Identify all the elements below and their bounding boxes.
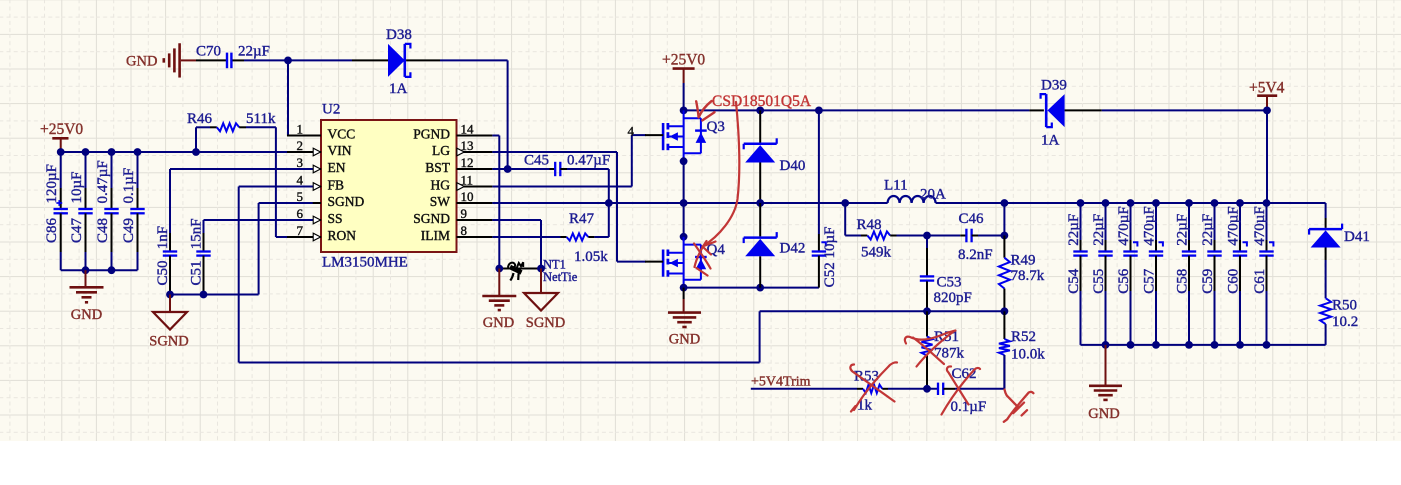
ground SGND (net-tie) — [540, 269, 542, 294]
wire R52 bottom corner — [1003, 355, 1005, 389]
transistor Q3 CSD18501Q5A — [662, 123, 665, 150]
capacitor C49 — [137, 152, 139, 188]
capacitor C58 — [1188, 203, 1190, 240]
svg-text:C46: C46 — [959, 211, 985, 227]
capacitor C55 — [1105, 203, 1107, 240]
svg-text:C47: C47 — [69, 217, 85, 243]
capacitor C57 — [1155, 203, 1157, 240]
svg-text:D41: D41 — [1344, 229, 1370, 245]
capacitor C86 — [60, 152, 62, 188]
markup cross over R51 — [905, 331, 956, 367]
node rail-C59 — [1211, 199, 1219, 207]
node bus-C86 — [57, 148, 65, 156]
pin 11 HG — [457, 186, 493, 188]
node rail-C55 — [1102, 199, 1110, 207]
svg-text:BST: BST — [425, 160, 451, 175]
svg-text:LG: LG — [432, 143, 450, 158]
svg-text:1.05k: 1.05k — [574, 249, 608, 265]
wire LG to Q4 gate riser — [492, 151, 617, 153]
svg-text:GND: GND — [71, 307, 102, 323]
svg-text:C52: C52 — [822, 262, 838, 287]
node BST junction — [504, 165, 512, 173]
node Q4 source — [680, 284, 688, 292]
svg-text:FB: FB — [328, 177, 345, 192]
svg-text:1A: 1A — [1041, 133, 1060, 149]
svg-text:+5V4: +5V4 — [1249, 79, 1285, 96]
svg-text:C58: C58 — [1174, 269, 1190, 294]
svg-text:VIN: VIN — [328, 143, 352, 158]
resistor R48 — [844, 203, 846, 236]
resistor R49 — [1003, 203, 1005, 236]
wire SW long row — [492, 202, 887, 204]
node rail-C61 — [1263, 199, 1271, 207]
wire +25V rail — [684, 109, 1030, 111]
svg-text:1A: 1A — [389, 81, 408, 97]
node rail-C58 — [1185, 199, 1193, 207]
node nettie-right — [537, 265, 545, 273]
svg-text:U2: U2 — [322, 102, 340, 118]
diode D39 — [1029, 109, 1044, 111]
node bus-C48 — [108, 148, 116, 156]
svg-text:470µF: 470µF — [1141, 206, 1157, 246]
svg-text:+25V0: +25V0 — [662, 52, 705, 69]
capacitor C48 — [111, 152, 113, 188]
node botbus-C48 — [108, 266, 116, 274]
node VCC junction — [284, 57, 292, 65]
wire Q4 gate — [617, 261, 646, 263]
svg-text:9: 9 — [461, 206, 468, 221]
svg-text:0.47µF: 0.47µF — [567, 152, 610, 168]
diode D38 — [288, 59, 352, 61]
resistor R53 — [857, 388, 863, 390]
wire FB riser — [239, 186, 313, 188]
svg-text:CSD18501Q5A: CSD18501Q5A — [712, 93, 812, 110]
svg-text:2: 2 — [297, 138, 304, 153]
svg-text:ILIM: ILIM — [421, 228, 450, 243]
svg-text:12: 12 — [461, 155, 474, 170]
svg-text:120µF: 120µF — [44, 164, 60, 204]
svg-text:C55: C55 — [1091, 269, 1107, 294]
svg-text:HG: HG — [431, 177, 451, 192]
svg-text:EN: EN — [328, 160, 346, 175]
wire D39 anode to +5V4 — [1102, 109, 1267, 111]
svg-text:549k: 549k — [861, 245, 892, 261]
inductor L11 — [888, 196, 936, 203]
pin 9 SGND — [457, 219, 493, 221]
svg-text:C51: C51 — [188, 260, 204, 285]
pin 13 LG — [457, 151, 493, 153]
node nettie-left — [495, 265, 503, 273]
capacitor C51 — [203, 233, 205, 252]
node botrow-C57 — [1152, 341, 1160, 349]
svg-text:3: 3 — [297, 155, 304, 170]
svg-text:0.1µF: 0.1µF — [121, 168, 137, 204]
svg-text:GND: GND — [483, 315, 514, 331]
capacitor C52 — [818, 110, 820, 234]
pin 2 VIN — [287, 151, 321, 153]
wire SGND pin9 to net-tie — [492, 219, 541, 221]
svg-text:5: 5 — [297, 189, 304, 204]
capacitor C54 — [1080, 203, 1082, 240]
capacitor C45 — [492, 168, 549, 170]
capacitor C60 — [1239, 203, 1241, 240]
svg-text:C62: C62 — [952, 366, 977, 382]
wire C70 to junction — [244, 59, 288, 61]
svg-text:10µF: 10µF — [69, 172, 85, 204]
svg-text:D38: D38 — [386, 27, 412, 43]
svg-text:470µF: 470µF — [1116, 206, 1132, 246]
svg-text:10µF: 10µF — [822, 227, 838, 259]
pin 4 FB — [287, 186, 321, 188]
pin 7 RON — [287, 236, 321, 238]
svg-text:0.1µF: 0.1µF — [951, 399, 987, 415]
svg-text:GND: GND — [669, 332, 700, 348]
svg-text:D39: D39 — [1041, 78, 1067, 94]
svg-text:10: 10 — [461, 189, 474, 204]
svg-text:D40: D40 — [780, 158, 806, 174]
wire L11 to output rail — [936, 202, 1326, 204]
capacitor C70 — [196, 59, 226, 61]
node SW-D42 — [756, 199, 764, 207]
svg-text:R46: R46 — [187, 111, 213, 127]
svg-text:R49: R49 — [1011, 252, 1036, 268]
svg-text:C49: C49 — [121, 218, 137, 243]
svg-text:22µF: 22µF — [1066, 214, 1082, 246]
svg-text:C59: C59 — [1200, 269, 1216, 294]
svg-text:511k: 511k — [246, 111, 276, 127]
svg-text:GND: GND — [1088, 406, 1119, 422]
svg-text:SGND: SGND — [413, 211, 450, 226]
wire SGND pin5 run — [259, 202, 313, 204]
pin 10 SW — [457, 202, 493, 204]
svg-text:NetTie: NetTie — [543, 270, 578, 284]
svg-text:SW: SW — [430, 194, 451, 209]
wire FB long bottom run — [239, 362, 760, 364]
capacitor C56 — [1130, 203, 1132, 240]
svg-text:Q3: Q3 — [707, 119, 725, 135]
svg-text:VCC: VCC — [328, 126, 356, 141]
capacitor C50 — [169, 233, 171, 252]
wire +25V0 bus — [61, 151, 313, 153]
wire Q4 drain — [683, 203, 685, 237]
markup long arrow curve to Q4 — [703, 102, 740, 247]
resistor R51 — [926, 311, 928, 336]
svg-text:R47: R47 — [569, 211, 595, 227]
svg-text:L11: L11 — [884, 178, 908, 194]
ground GND (net-tie) — [498, 269, 500, 296]
markup crossed ground at R52 — [1004, 390, 1034, 422]
svg-text:8: 8 — [461, 223, 468, 238]
node SW-608 — [605, 199, 613, 207]
op-amp U2 LM3150MHE body — [321, 120, 457, 252]
svg-text:20A: 20A — [920, 187, 946, 203]
capacitor C62 — [937, 383, 939, 395]
node bus-C47 — [82, 148, 90, 156]
svg-text:22µF: 22µF — [238, 44, 270, 60]
svg-text:SGND: SGND — [149, 334, 188, 350]
pin 14 PGND — [457, 135, 493, 137]
wire HG to Q3 gate riser — [492, 186, 631, 188]
svg-text:SS: SS — [328, 211, 343, 226]
wire R46 to RON — [275, 127, 277, 237]
wire Q3 source to SW — [683, 161, 685, 203]
node rail-D40 — [756, 107, 764, 115]
wire PGND to net-tie — [492, 135, 499, 137]
svg-text:C45: C45 — [524, 152, 549, 168]
node bus-R46 — [192, 148, 200, 156]
svg-text:4: 4 — [628, 124, 635, 139]
node SW-R48 — [841, 199, 849, 207]
diode D42 — [759, 203, 761, 236]
wire FB row — [760, 310, 1005, 312]
node bus-C49 — [134, 148, 142, 156]
node rail-C60 — [1236, 199, 1244, 207]
wire output bank bottom row — [1081, 344, 1326, 346]
svg-text:R48: R48 — [857, 217, 882, 233]
node botrow-C59 — [1211, 341, 1219, 349]
svg-text:R52: R52 — [1011, 329, 1036, 345]
capacitor C46 — [927, 235, 960, 237]
markup cross over C62 — [942, 366, 981, 414]
node sgnd-C51 — [200, 291, 208, 299]
node R49-C46 — [1001, 232, 1009, 240]
node FB-R51 — [923, 307, 931, 315]
svg-text:820pF: 820pF — [934, 290, 972, 306]
resistor R47 — [492, 236, 560, 238]
svg-text:470µF: 470µF — [1225, 206, 1241, 246]
markup check near Q3 — [696, 101, 714, 120]
wire D38 cathode to BST — [440, 59, 508, 61]
svg-text:GND: GND — [126, 53, 157, 69]
node rail-C57 — [1152, 199, 1160, 207]
svg-text:R50: R50 — [1332, 297, 1357, 313]
node Q3 source — [680, 157, 688, 165]
svg-text:C61: C61 — [1252, 269, 1268, 294]
node R48-C53 — [923, 232, 931, 240]
diode D41 — [1325, 203, 1327, 218]
svg-text:C54: C54 — [1066, 268, 1082, 294]
svg-text:D42: D42 — [780, 241, 806, 257]
svg-text:C86: C86 — [44, 217, 60, 243]
svg-text:7: 7 — [297, 223, 304, 238]
markup cross over R53 — [850, 362, 897, 411]
resistor R50 — [1325, 260, 1327, 298]
node rail-R49 — [1001, 199, 1009, 207]
transistor Q4 CSD18501Q5A — [662, 250, 665, 277]
svg-text:14: 14 — [461, 121, 475, 136]
svg-text:C57: C57 — [1141, 268, 1157, 294]
svg-text:0.47µF: 0.47µF — [95, 160, 111, 203]
node FB-R52 — [1001, 307, 1009, 315]
wire +5V4 riser — [1266, 110, 1268, 203]
net-tie NT1 — [499, 268, 541, 270]
pin 12 BST — [457, 168, 493, 170]
wire Q3 gate — [632, 134, 646, 136]
svg-text:PGND: PGND — [413, 126, 450, 141]
wire input caps bottom bus — [61, 269, 138, 271]
svg-text:C60: C60 — [1225, 269, 1241, 294]
node botrow-C55 — [1102, 341, 1110, 349]
ground GND (power stage) — [683, 288, 685, 299]
svg-text:8.2nF: 8.2nF — [958, 247, 993, 263]
svg-text:1: 1 — [297, 121, 304, 136]
node SW-Q — [680, 199, 688, 207]
ground GND (output bank) — [1105, 345, 1107, 386]
pin 5 SGND — [287, 202, 321, 204]
svg-text:1nF: 1nF — [155, 226, 171, 249]
capacitor C59 — [1214, 203, 1216, 240]
svg-text:10.2: 10.2 — [1332, 314, 1358, 330]
ground GND (input caps) — [85, 270, 87, 287]
node botrow-C56 — [1127, 341, 1135, 349]
svg-text:SGND: SGND — [328, 194, 365, 209]
node +5V4 junction — [1263, 107, 1271, 115]
node botbus-C47 — [82, 266, 90, 274]
node Q4 drain — [680, 233, 688, 241]
svg-text:SGND: SGND — [526, 315, 565, 331]
svg-text:C53: C53 — [937, 274, 962, 290]
pin 3 EN — [287, 168, 321, 170]
pin 8 ILIM — [457, 236, 493, 238]
svg-text:C56: C56 — [1116, 268, 1132, 294]
pin 6 SS — [287, 219, 321, 221]
svg-text:+25V0: +25V0 — [40, 121, 83, 138]
polarity mark C86 — [56, 202, 62, 204]
svg-text:22µF: 22µF — [1200, 214, 1216, 246]
svg-text:22µF: 22µF — [1174, 214, 1190, 246]
markup cross over Q4 — [694, 241, 711, 276]
node botrow-C61 — [1263, 341, 1271, 349]
resistor R52 — [1003, 311, 1005, 339]
node rail-C52 — [815, 107, 823, 115]
node rail-C56 — [1127, 199, 1135, 207]
svg-text:C50: C50 — [155, 260, 171, 285]
wire C45/R47 riser to SW — [608, 169, 610, 237]
node rail-C54 — [1077, 199, 1085, 207]
svg-text:22µF: 22µF — [1091, 214, 1107, 246]
node gndrow-D42 — [756, 284, 764, 292]
pin 1 VCC — [287, 135, 321, 137]
capacitor C61 — [1266, 203, 1268, 240]
wire EN to C50 — [170, 168, 313, 170]
diode D40 — [759, 110, 761, 142]
wire junction down to pin1 — [287, 60, 289, 135]
svg-text:10.0k: 10.0k — [1011, 346, 1045, 362]
resistor R46 — [195, 127, 197, 152]
svg-text:6: 6 — [297, 206, 304, 221]
svg-text:470µF: 470µF — [1252, 206, 1268, 246]
svg-text:+5V4Trim: +5V4Trim — [751, 375, 811, 390]
node trim-R51 — [923, 385, 931, 393]
svg-text:4: 4 — [297, 172, 304, 187]
node sgnd-C50 — [166, 291, 174, 299]
svg-text:LM3150MHE: LM3150MHE — [322, 255, 408, 271]
capacitor C53 — [926, 236, 928, 249]
capacitor C47 — [85, 152, 87, 188]
node botrow-C60 — [1236, 341, 1244, 349]
wire SGND bottom row — [170, 294, 259, 296]
svg-text:C70: C70 — [196, 44, 221, 60]
svg-text:78.7k: 78.7k — [1011, 268, 1045, 284]
node rail-Q3 — [680, 107, 688, 115]
wire +5V4Trim row — [751, 388, 857, 390]
wire SS to C51 — [204, 219, 313, 221]
svg-text:15nF: 15nF — [188, 218, 204, 249]
svg-text:C48: C48 — [95, 218, 111, 243]
node botrow-C58 — [1185, 341, 1193, 349]
svg-text:RON: RON — [328, 228, 357, 243]
wire power-stage ground row — [684, 287, 819, 289]
ground SGND (left) — [169, 295, 171, 313]
